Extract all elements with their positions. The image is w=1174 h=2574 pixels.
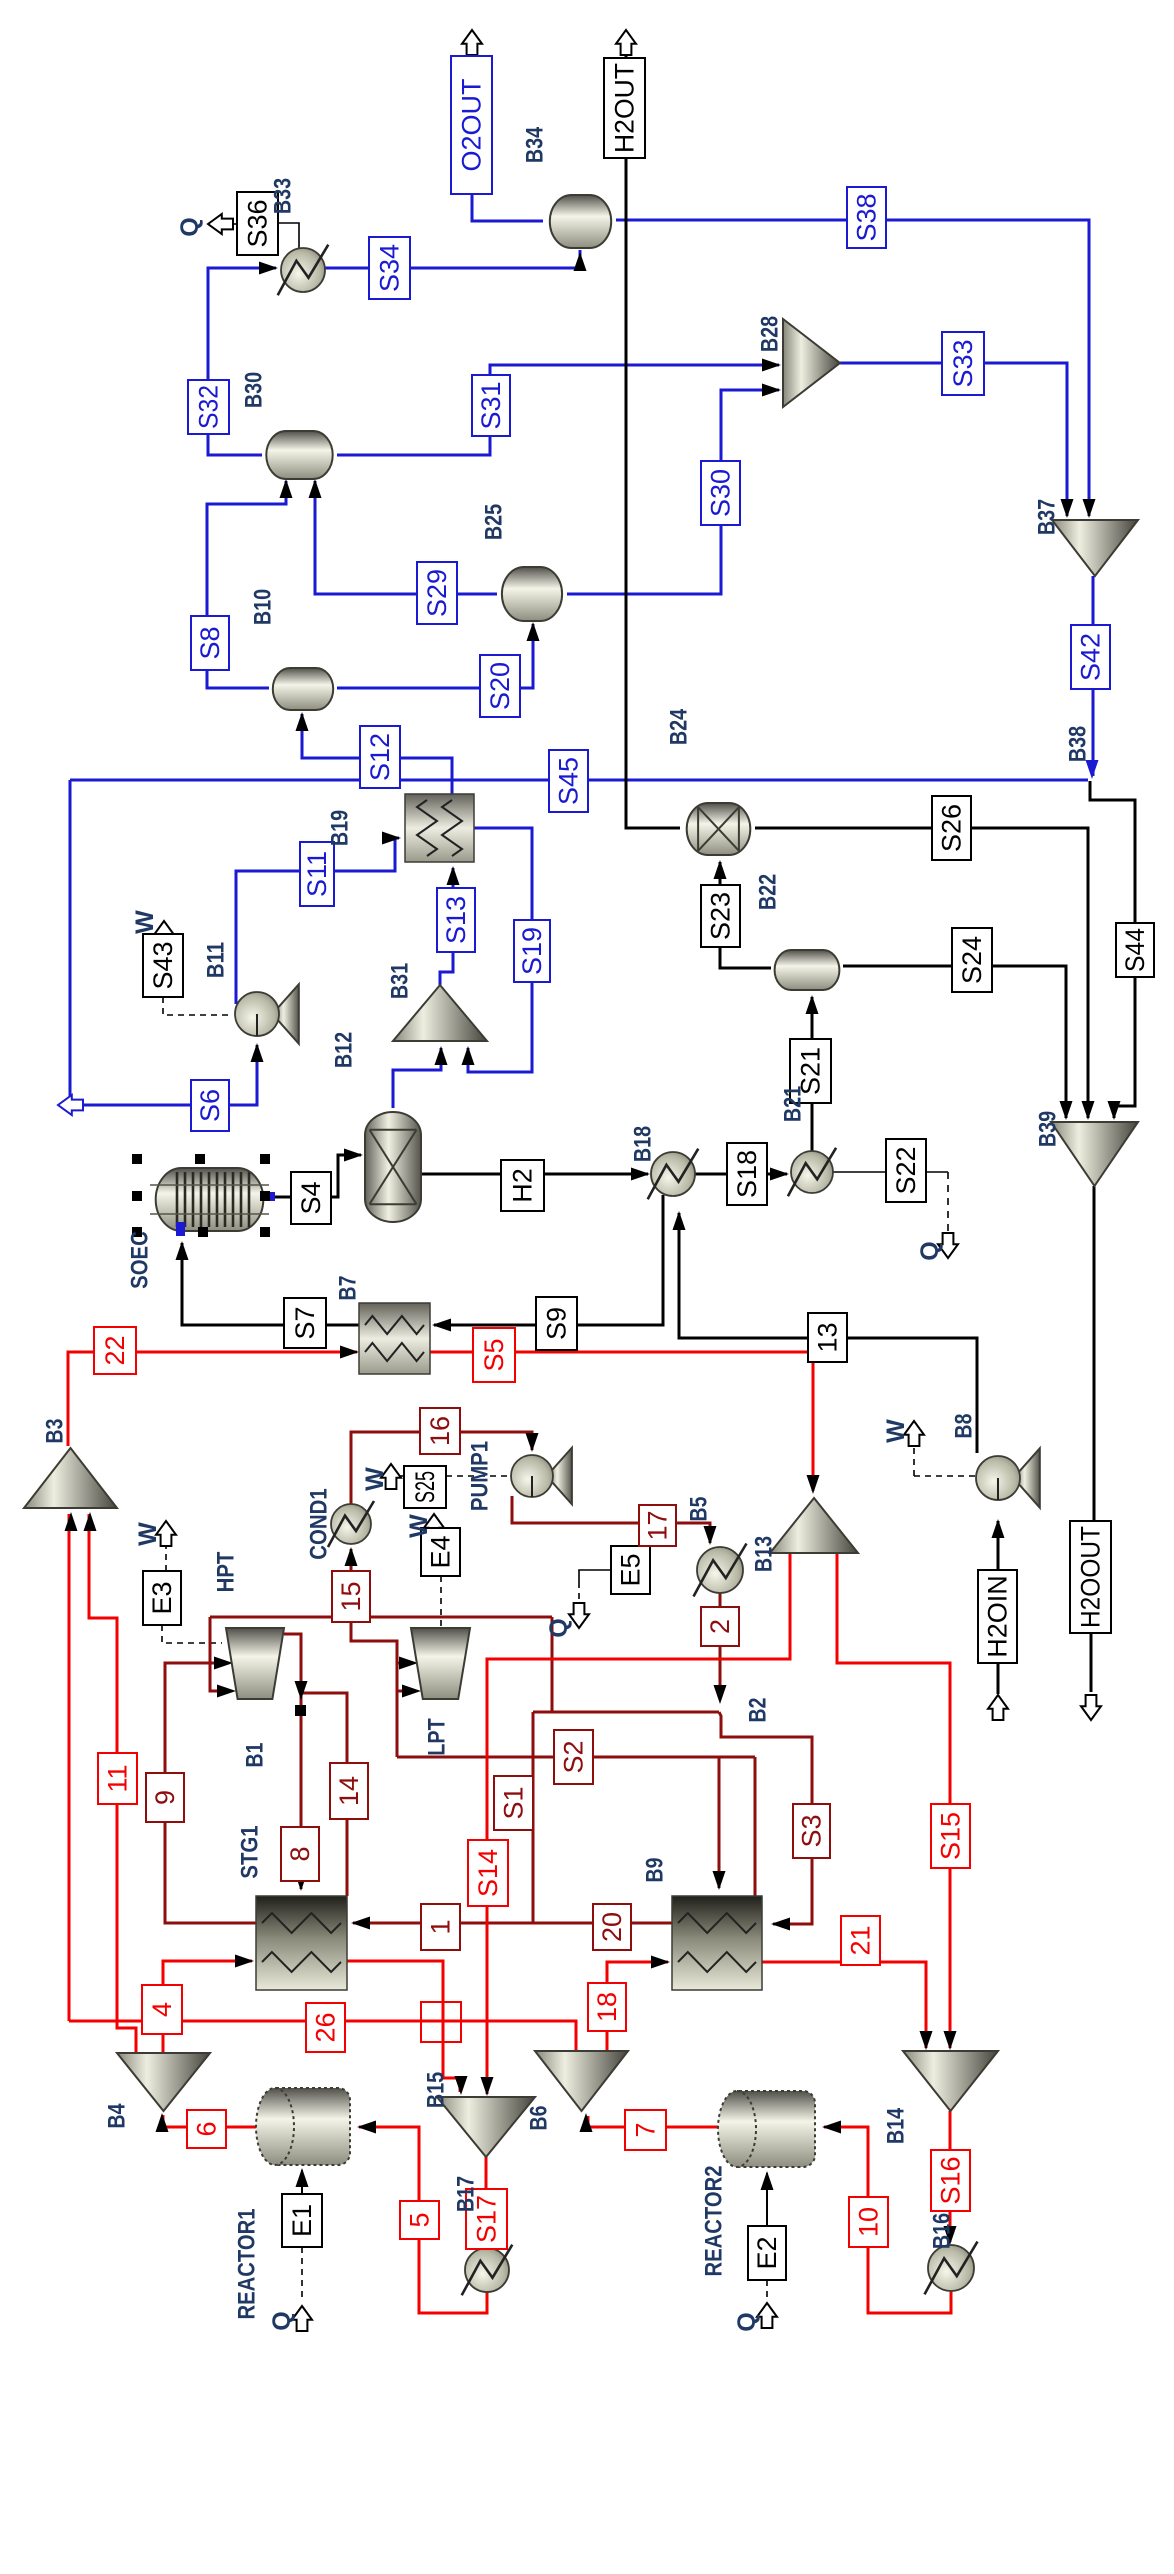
node S17 [466,2189,507,2249]
node S31 [472,375,510,436]
svg-text:Q: Q [268,2311,296,2330]
port arrow H2OOUT [1081,1695,1101,1720]
svg-text:B13: B13 [751,1536,778,1572]
wire 10 B16-REACTOR2 [824,2127,951,2313]
mixer B6 [437,2097,535,2157]
svg-text:E5: E5 [616,1553,646,1586]
svg-text:Q: Q [733,2312,761,2331]
svg-text:13: 13 [813,1322,843,1352]
mixer B3 [24,1448,117,1508]
wire E4-LPT dashed [440,1576,442,1640]
node 26 [306,2003,345,2052]
svg-text:B1: B1 [242,1743,269,1768]
wire 8 HPT-STG1 [284,1634,301,1889]
wire 26 horizontal [69,2020,488,2023]
svg-text:S20: S20 [485,662,515,710]
node E1 [282,2194,322,2247]
vessel B25 [502,567,562,621]
node S15 [931,1804,970,1868]
wire S3 B2-B9 [719,1712,812,1924]
node S8 [191,616,229,670]
wire S29 B25-B30 [315,481,497,594]
svg-text:20: 20 [597,1912,627,1942]
svg-text:B18: B18 [630,1126,657,1162]
wire 16 COND1-PUMP1 [351,1432,532,1505]
wire 17 PUMP1-B5 [512,1496,710,1543]
svg-text:O2OUT: O2OUT [457,78,487,171]
wire B22-H2OUT [626,158,680,828]
svg-text:B34: B34 [522,126,549,163]
node valve [421,2002,461,2042]
vessel B21 [775,950,840,990]
svg-text:B2: B2 [745,1698,772,1723]
svg-text:S8: S8 [195,626,225,659]
svg-text:S14: S14 [473,1849,503,1897]
svg-text:W: W [882,1419,910,1443]
wire 21 B9-B14 [762,1962,926,2048]
pump B11 [272,984,298,1043]
svg-text:S33: S33 [948,339,978,387]
heat-exchanger STG1 [256,1896,347,1990]
wire Q E1 dashed [301,2247,303,2302]
turbine LPT [411,1628,470,1699]
splitter B4 [117,2053,210,2111]
node 17 [639,1505,676,1546]
port arrow W B8 [904,1421,924,1446]
pump B8 [1013,1448,1039,1507]
wire S25-PUMP1 dashed [446,1475,508,1477]
heat-exchanger B9 [672,1896,762,1990]
svg-text:PUMP1: PUMP1 [467,1441,494,1511]
svg-text:B15: B15 [423,2072,450,2108]
svg-text:16: 16 [425,1416,455,1446]
splitter B13 [770,1498,858,1553]
svg-text:S45: S45 [554,757,584,805]
wire 5 B17-REACTOR1 [359,2127,487,2313]
node 14 [330,1763,368,1819]
svg-text:S38: S38 [852,193,882,241]
wire 22 S5 B3-B13 [68,1352,357,1446]
wire STG1 out-26 [347,1961,460,2092]
wire E5-Q dashed [579,1570,611,1582]
svg-text:REACTOR2: REACTOR2 [701,2165,728,2276]
svg-text:E3: E3 [147,1581,177,1614]
node S1 [494,1776,533,1830]
node S24 [952,928,992,992]
svg-text:B24: B24 [666,708,693,745]
node S43 [143,934,183,997]
heat-exchanger B19 [405,794,474,862]
wire 20 1 B9-STG1 [353,1922,672,1925]
wire H2OUT stub [625,42,628,58]
node 9 [146,1773,184,1822]
svg-text:E2: E2 [752,2236,782,2269]
svg-text:S12: S12 [365,733,395,781]
node S6 [191,1080,229,1131]
heat-exchanger B18 [651,1152,695,1196]
svg-text:B38: B38 [1065,726,1092,762]
svg-text:S42: S42 [1076,633,1106,681]
svg-text:B31: B31 [387,963,414,999]
wire S11 B11-B19 [236,838,399,1004]
reactor B12 [365,1112,421,1222]
node S20 [480,655,520,717]
wire S15 B13-B14 [837,1553,950,2048]
wire H2 B12-B18 [421,1173,648,1176]
node O2OUT [451,56,492,194]
svg-text:18: 18 [592,1992,622,2022]
drum B24 [687,803,751,855]
wire 18 split-B9 [607,1962,668,2051]
node 1 [421,1904,460,1950]
wire S34 B33-B34 [325,250,580,268]
wire 14 line [301,1693,347,1896]
node 21 [841,1916,880,1965]
svg-text:B39: B39 [1035,1111,1062,1147]
svg-text:S25: S25 [410,1471,440,1503]
wire 26 vertical to B3 [68,1514,71,2021]
svg-text:S4: S4 [296,1181,326,1214]
svg-text:B8: B8 [951,1414,978,1439]
svg-text:8: 8 [285,1846,315,1861]
svg-text:2: 2 [705,1619,735,1634]
node 2 [701,1607,739,1646]
svg-text:S9: S9 [542,1307,572,1340]
node E4 [421,1528,460,1576]
reactor REACTOR2 [737,2091,815,2167]
node S21 [790,1039,831,1103]
wire Q E2 dashed [766,2280,768,2300]
svg-text:B11: B11 [203,942,230,978]
wire 6 REACTOR1-B4 [163,2115,256,2127]
node S45 [549,750,588,812]
svg-text:E1: E1 [287,2204,317,2237]
node H2OIN [978,1570,1017,1663]
svg-text:S6: S6 [195,1089,225,1122]
svg-text:B4: B4 [104,2103,131,2128]
svg-text:22: 22 [100,1335,130,1365]
wire HPT lower inlet [210,1617,230,1691]
wire main steam header [210,1616,552,1619]
wire S9 B18-B7 [434,1195,663,1325]
node S26 [932,796,971,860]
node 20 [593,1904,631,1950]
node 7 [625,2110,666,2150]
svg-text:W: W [134,1522,162,1546]
port arrow W E3 [165,1546,167,1571]
svg-text:S3: S3 [797,1814,827,1847]
node S22 [886,1139,926,1202]
svg-text:B25: B25 [481,504,508,540]
svg-text:S22: S22 [891,1146,921,1194]
node 13 [808,1313,847,1362]
port arrow Q E1 [292,2306,312,2331]
wire LPT feed [351,1617,397,1757]
port arrow Q S22 [938,1233,958,1258]
wire 7 REACTOR2-split [588,2116,718,2127]
port arrow S6 [58,1095,83,1115]
wire S13 B31-B19 [440,868,453,985]
port arrow W S25 [381,1464,401,1489]
svg-text:S7: S7 [290,1306,320,1339]
cooler B16 [928,2245,974,2291]
node S12 [360,726,400,788]
svg-text:1: 1 [426,1919,456,1934]
svg-text:10: 10 [854,2207,884,2237]
wire S7 B7-SOEC [182,1243,359,1325]
node S23 [701,885,740,947]
svg-text:Q: Q [545,1618,573,1637]
node E2 [748,2226,786,2280]
wire S1 branch [532,1712,535,1923]
wire S17 B15-B17 [485,2157,488,2245]
node 15 [332,1571,370,1622]
svg-text:H2: H2 [508,1168,538,1203]
compressor B31 [393,985,487,1041]
wire W B8 dashed [914,1475,975,1477]
svg-text:11: 11 [103,1764,133,1792]
mixer B28 [783,319,840,407]
svg-text:S44: S44 [1120,928,1150,972]
mixer B37 [1052,520,1138,576]
node H2OOUT [1070,1521,1111,1633]
wire S4 SOEC-B12 [269,1155,361,1197]
svg-text:B33: B33 [270,178,297,214]
node S7 [284,1298,326,1348]
wire S43-B11 dashed [163,997,232,1015]
node 6 [187,2110,226,2148]
heat-exchanger B7 [359,1303,430,1374]
node S13 [437,888,475,952]
svg-text:S29: S29 [422,569,452,617]
wire 4 B4-STG1 [163,1961,252,2053]
mixer B39 [1051,1122,1138,1186]
node S5 [473,1328,515,1382]
vessel B10 [273,668,333,710]
svg-text:S5: S5 [479,1338,509,1371]
svg-text:B19: B19 [327,810,354,846]
svg-text:B9: B9 [642,1858,669,1883]
node S19 [514,920,550,982]
svg-text:9: 9 [150,1790,180,1805]
vessel B30 [266,431,332,479]
pump PUMP1 [547,1448,572,1505]
wire 15 COND1 feed [350,1549,353,1617]
svg-text:W: W [131,910,159,934]
wire S18 B18-B20 [694,1173,787,1176]
svg-text:S23: S23 [706,892,736,940]
svg-text:S31: S31 [476,381,506,429]
wire B30-B33 [208,268,276,455]
node 16 [420,1408,460,1454]
port arrow Q E2 [757,2303,777,2328]
wire S8 B10-B30 [207,481,286,688]
node 4 [142,1985,182,2034]
svg-text:6: 6 [192,2121,222,2136]
wire S19 B19-B31 [468,828,532,1072]
node S30 [701,461,740,525]
port arrow H2OIN [988,1695,1008,1720]
node S3 [793,1804,830,1858]
node 10 [849,2197,888,2247]
node E5 [611,1546,650,1594]
reactor REACTOR1 [275,2088,350,2165]
node S16 [931,2150,970,2211]
svg-text:B30: B30 [241,372,268,408]
vessel B34 [550,195,611,248]
mixer B14 [903,2051,998,2111]
wire S6 vertical [70,780,257,1105]
node S44 [1116,923,1154,977]
svg-text:5: 5 [405,2212,435,2227]
svg-text:B14: B14 [883,2107,910,2144]
svg-text:S16: S16 [936,2156,966,2204]
svg-text:B12: B12 [331,1032,358,1068]
node S33 [942,332,984,395]
wire B15 feeds [488,2021,576,2051]
wire E1-REACTOR1 [301,2170,303,2194]
svg-text:H2OIN: H2OIN [983,1575,1013,1658]
wire H2OIN-B8 [997,1521,1000,1570]
svg-text:B5: B5 [686,1497,713,1522]
turbine HPT [226,1628,284,1699]
svg-text:S30: S30 [706,469,736,517]
wire 13 B8-B18 [679,1213,977,1453]
wire S20 B10-B25 [337,624,533,688]
svg-text:S24: S24 [957,936,987,984]
svg-text:S1: S1 [499,1786,529,1819]
svg-text:B7: B7 [335,1276,362,1301]
svg-text:H2OUT: H2OUT [610,63,640,153]
heat-exchanger B20 [791,1151,833,1193]
node 18 [588,1983,626,2031]
svg-text:STG1: STG1 [237,1825,264,1878]
svg-text:B6: B6 [526,2106,553,2131]
wire B12-B31 [393,1048,441,1108]
wire B2 branch [551,1617,554,1712]
cooler B17 [465,2248,509,2292]
svg-text:B22: B22 [755,874,782,910]
node S14 [468,1840,508,1906]
node S29 [417,562,457,624]
svg-text:S34: S34 [375,244,405,292]
wire S21 B20-B21 [811,997,814,1151]
wire S2 LPT-B9 [397,1756,755,1759]
node S9 [536,1297,577,1350]
svg-text:S15: S15 [936,1812,966,1860]
svg-text:B16: B16 [929,2213,956,2249]
svg-text:S32: S32 [194,385,224,429]
wire 11 B4-B3 [89,1514,136,2053]
wire S24 B21-B39 [843,966,1066,1118]
node S32 [188,380,229,434]
port arrow H2OUT [616,30,636,55]
svg-text:15: 15 [336,1581,366,1611]
svg-text:S19: S19 [517,927,547,975]
svg-text:S18: S18 [732,1150,762,1198]
svg-text:B37: B37 [1034,499,1061,535]
svg-text:7: 7 [631,2122,661,2137]
wire S44 B38-B39 [1090,781,1135,1118]
port arrow Q S36 [208,214,233,234]
svg-text:4: 4 [147,2002,177,2017]
wire S30 B25-B28 [567,390,779,594]
wire O2OUT-B34 [472,164,543,221]
wire S45 [70,779,1088,782]
svg-text:REACTOR1: REACTOR1 [234,2208,261,2319]
node H2 [501,1160,544,1211]
wire S42 B37-B38 [1092,576,1095,776]
port arrow W S43 [154,921,174,946]
wire S12 B19-B10 [302,714,452,794]
svg-text:W: W [361,1467,389,1491]
node S18 [727,1143,767,1205]
node H2OUT [604,58,645,158]
wire S33 B28-B37 [840,363,1067,516]
wire S26 B22-B39 [755,828,1088,1118]
port arrow Q E5 [569,1603,589,1628]
node 8 [281,1827,319,1881]
condenser COND1 [331,1504,371,1544]
wire E3-HPT dashed [162,1625,222,1643]
wire 9 STG1-HPT [165,1663,256,1923]
wire O2OUT stub [471,42,474,56]
node E3 [143,1571,181,1625]
svg-text:14: 14 [334,1776,364,1806]
wire Q S22 dashed [947,1172,949,1232]
svg-text:B3: B3 [42,1419,69,1444]
node S2 [554,1730,593,1784]
wire B39-H2OOUT [1093,1186,1096,1521]
port arrow O2OUT [462,30,482,55]
selection handles SOEC [132,1154,142,1164]
wire S31 B30-B28 [337,365,779,455]
svg-text:S36: S36 [243,199,273,247]
wire S38 B34-B37 [616,220,1089,516]
junction node B1 [295,1705,306,1716]
svg-text:S13: S13 [441,896,471,944]
wire E2-REACTOR2 [766,2173,768,2226]
node S25 [404,1466,446,1508]
svg-text:H2OOUT: H2OOUT [1076,1526,1106,1628]
SOEC electrolyzer [156,1168,264,1231]
svg-text:B21: B21 [780,1086,807,1122]
svg-text:S11: S11 [302,851,332,897]
svg-text:HPT: HPT [213,1551,240,1592]
svg-text:S26: S26 [937,804,967,852]
wire S23 B21-B22 [720,862,771,968]
svg-text:Q: Q [176,217,204,236]
svg-text:21: 21 [846,1925,876,1955]
svg-text:B10: B10 [250,589,277,625]
port arrow W E4 [424,1514,444,1539]
node S38 [847,187,886,248]
svg-text:SOEC: SOEC [127,1231,154,1289]
svg-text:B28: B28 [757,316,784,352]
node 11 [98,1753,137,1804]
node S4 [291,1172,331,1224]
wire S36-B33 [278,223,299,250]
svg-text:LPT: LPT [424,1718,451,1756]
node 5 [400,2201,439,2239]
heat-exchanger B33 [281,248,325,292]
svg-text:26: 26 [311,2012,341,2042]
splitter B15 [535,2051,628,2111]
svg-text:COND1: COND1 [306,1488,333,1559]
svg-text:Q: Q [916,1241,944,1260]
node S42 [1071,625,1110,689]
node S36 [237,192,278,255]
